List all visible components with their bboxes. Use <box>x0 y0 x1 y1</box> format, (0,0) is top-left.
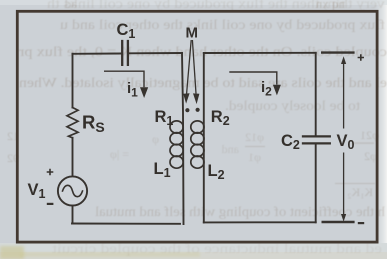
svg-text:φ1: φ1 <box>248 150 261 164</box>
svg-text:very thin, then the flux produ: very thin, then the flux produced by one… <box>47 0 385 11</box>
svg-text:and: and <box>222 142 239 156</box>
svg-text:flux produced by one coil link: flux produced by one coil links the othe… <box>60 17 385 32</box>
svg-text:φ2: φ2 <box>364 149 377 163</box>
svg-text:φ12: φ12 <box>245 130 264 144</box>
svg-text:to be loosely coupled.: to be loosely coupled. <box>225 98 360 113</box>
svg-text:K₁K₂: K₁K₂ <box>347 185 373 199</box>
svg-text:φ: φ <box>152 132 159 146</box>
svg-text:M: M <box>186 24 199 41</box>
svg-text:h the coefficient of coupling: h the coefficient of coupling with self … <box>95 204 385 219</box>
svg-text:= |φ: = |φ <box>110 147 129 161</box>
